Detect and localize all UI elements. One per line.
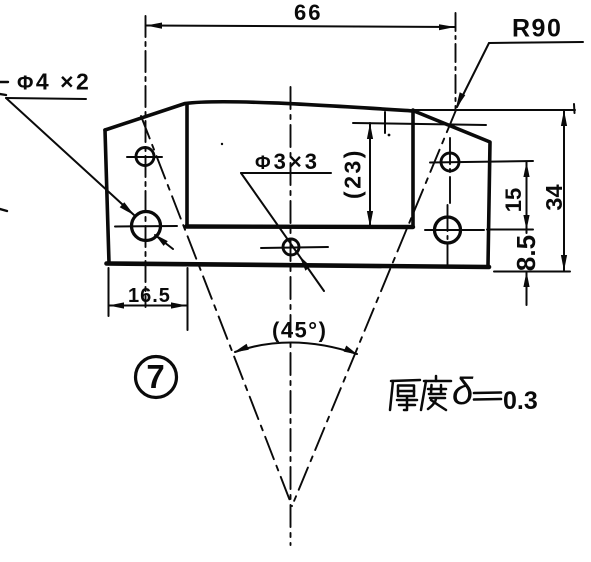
svg-text:0.3: 0.3	[503, 387, 538, 415]
svg-text:Φ4 ×2: Φ4 ×2	[17, 69, 91, 95]
svg-text:8.5: 8.5	[511, 235, 541, 271]
svg-text:R90: R90	[512, 15, 562, 43]
svg-text:16.5: 16.5	[128, 285, 171, 307]
svg-text:15: 15	[501, 188, 526, 212]
svg-text:66: 66	[294, 0, 322, 25]
svg-text:Φ3×3: Φ3×3	[255, 149, 320, 174]
svg-text:34: 34	[541, 184, 567, 210]
svg-text:δ: δ	[452, 371, 474, 413]
svg-text:(45°): (45°)	[272, 318, 327, 343]
svg-text:7: 7	[146, 358, 164, 395]
svg-text:(23): (23)	[340, 148, 366, 199]
